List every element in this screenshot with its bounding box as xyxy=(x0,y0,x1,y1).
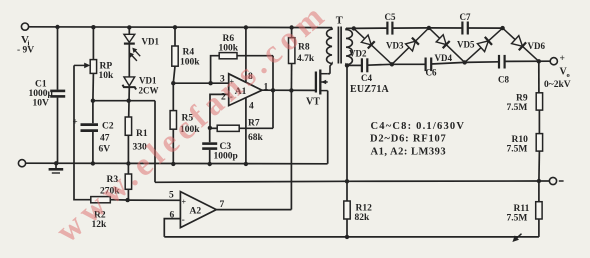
wire: A2 output to wired-OR column xyxy=(216,209,291,211)
diode VD4 xyxy=(429,28,465,63)
capacitor C2 47u/6V electrolytic xyxy=(92,101,94,124)
svg-text:C7: C7 xyxy=(460,12,471,22)
svg-text:7.5M: 7.5M xyxy=(507,214,528,224)
node: R4 top on supply rail xyxy=(173,25,177,29)
ground symbol xyxy=(55,163,57,168)
svg-text:C1: C1 xyxy=(35,80,47,90)
capacitor C7 xyxy=(461,22,463,35)
svg-text:-: - xyxy=(182,215,185,225)
svg-text:7: 7 xyxy=(220,200,225,210)
svg-text:C2: C2 xyxy=(102,122,114,132)
wire: RP wiper down-left column to R2 xyxy=(74,65,91,199)
resistor R3 270k xyxy=(127,164,129,175)
svg-text:6: 6 xyxy=(170,211,175,221)
VT source column to ground rail xyxy=(327,91,329,164)
ground rail (0V) xyxy=(22,162,328,165)
svg-text:VD4: VD4 xyxy=(435,53,453,63)
resistor R6 100k feedback xyxy=(211,56,220,83)
node: R8 top on supply rail xyxy=(289,25,293,29)
svg-text:2CW: 2CW xyxy=(139,86,159,96)
capacitor C1 1000u/10V xyxy=(57,27,59,90)
svg-text:R10: R10 xyxy=(512,135,529,145)
op-amp A1 LM393 xyxy=(229,74,262,106)
node: R8/comparator-output junction xyxy=(289,88,293,92)
node: secondary bottom corner xyxy=(345,63,349,67)
wire: top -9V supply rail xyxy=(25,26,332,29)
svg-text:VD3: VD3 xyxy=(386,41,404,51)
svg-text:C6: C6 xyxy=(426,68,437,78)
node: R10/R11 tap junction xyxy=(537,179,541,183)
resistor R10 7.5M xyxy=(536,134,542,152)
diode VD6 xyxy=(503,28,539,61)
node: VD1 top on supply rail xyxy=(127,25,131,29)
wire: multiplier top rail xyxy=(354,27,388,29)
LED VD1 arrows xyxy=(134,50,140,56)
resistor R7 68k xyxy=(217,125,239,131)
resistor R1 330 xyxy=(125,117,131,135)
svg-text:VD1: VD1 xyxy=(142,36,160,46)
node: R2/R3/A2 pin5 junction xyxy=(125,198,129,202)
node: multiplier bottom node 2 xyxy=(463,60,467,64)
svg-text:4: 4 xyxy=(249,102,254,112)
svg-text:100k: 100k xyxy=(180,58,200,68)
capacitor C3 1000p xyxy=(209,128,211,142)
node: secondary top junction xyxy=(352,26,356,30)
svg-text:+: + xyxy=(560,54,565,64)
svg-text:VD2: VD2 xyxy=(349,49,367,59)
terminal Vi -9V input xyxy=(21,23,28,30)
node: feedback column on output xyxy=(271,88,275,92)
node: R1/R3 on ground rail xyxy=(126,161,130,165)
node: C2 bottom on ground rail xyxy=(91,161,95,165)
svg-text:VT: VT xyxy=(306,97,320,108)
wire: A2 pin6 lead xyxy=(164,219,180,237)
svg-text:A1, A2: LM393: A1, A2: LM393 xyxy=(371,146,447,157)
svg-text:R1: R1 xyxy=(136,129,148,139)
svg-text:6V: 6V xyxy=(99,145,111,155)
svg-text:R11: R11 xyxy=(514,204,530,214)
svg-text:R6: R6 xyxy=(223,34,235,44)
transformer T secondary winding xyxy=(346,28,352,65)
LED VD1 (photodiode-style arrows) xyxy=(128,27,130,34)
wire: A1 output row to VT gate xyxy=(262,89,316,91)
wire: HV divider column R9 R10 R11 xyxy=(538,61,540,93)
capacitor C5 xyxy=(386,22,388,35)
wire: A2 pin6 feedback bottom rail xyxy=(164,236,539,238)
wire: A1 pin4 column to ground rail xyxy=(245,98,247,164)
node: A1 pin4 on ground rail xyxy=(244,162,248,166)
svg-text:100k: 100k xyxy=(219,44,239,54)
svg-text:7.5M: 7.5M xyxy=(507,103,528,113)
svg-text:R7: R7 xyxy=(248,119,260,129)
svg-text:C5: C5 xyxy=(385,12,396,22)
resistor R4 100k xyxy=(174,27,176,46)
node: R4/R5 divider junction xyxy=(171,81,175,85)
capacitor C4 xyxy=(361,58,363,72)
node: R12 bottom junction xyxy=(345,235,349,239)
node: multiplier peak 1 xyxy=(427,26,431,30)
svg-text:10V: 10V xyxy=(33,99,50,109)
resistor R8 4.7k xyxy=(291,28,293,38)
wire: R6/R7 right column to A1 output xyxy=(272,56,274,129)
resistor R2 12k xyxy=(91,197,111,203)
wire: reference node row (RP/C2/zener/R1) xyxy=(93,100,155,102)
capacitor C6 xyxy=(425,58,427,72)
wire: secondary-bottom column down to R12 xyxy=(346,65,348,201)
svg-text:C4: C4 xyxy=(361,73,372,83)
svg-text:0~2kV: 0~2kV xyxy=(544,80,571,90)
node: multiplier bottom node 1 xyxy=(390,62,394,66)
svg-text:T: T xyxy=(336,16,343,27)
svg-text:A2: A2 xyxy=(190,207,202,217)
resistor R9 7.5M xyxy=(536,93,542,110)
svg-text:R9: R9 xyxy=(516,94,528,104)
svg-text:R4: R4 xyxy=(183,48,195,58)
terminal feedback tap xyxy=(549,177,556,184)
wire: A2 pin5 lead xyxy=(128,199,181,201)
resistor R12 82k xyxy=(344,201,350,219)
svg-text:+: + xyxy=(182,198,187,207)
node: C3 bottom on ground rail xyxy=(208,162,212,166)
node: pin2/R7/C3 junction xyxy=(208,126,212,130)
svg-text:5: 5 xyxy=(169,191,174,201)
potentiometer RP 10k xyxy=(92,27,94,59)
diode VD3 xyxy=(392,28,429,64)
capacitor C8 xyxy=(498,55,500,69)
node: R6 left on pin3 row xyxy=(208,81,212,85)
diode VD5 xyxy=(465,28,503,62)
wire: reference column down to feedback row xyxy=(154,101,156,183)
RP wiper arrow xyxy=(74,64,87,66)
svg-text:C4~C8: 0.1/630V: C4~C8: 0.1/630V xyxy=(371,121,466,132)
zener diode VD1 2CW xyxy=(124,77,135,86)
svg-text:7.5M: 7.5M xyxy=(507,145,528,155)
transformer T primary winding xyxy=(327,28,332,74)
svg-text:47: 47 xyxy=(100,134,110,144)
svg-text:C3: C3 xyxy=(220,142,232,152)
node: R5 bottom on ground rail xyxy=(171,162,175,166)
node: RP-C2 junction xyxy=(91,99,95,103)
node: C1/ground junction xyxy=(54,161,58,165)
svg-text:C8: C8 xyxy=(498,75,509,85)
wire: secondary top to ladder xyxy=(346,27,354,29)
svg-text:EUZ71A: EUZ71A xyxy=(350,84,390,95)
node: C1 top on supply rail xyxy=(55,25,59,29)
node: multiplier output node xyxy=(537,59,541,63)
node: zener-R1 junction xyxy=(127,99,131,103)
svg-text:4.7k: 4.7k xyxy=(297,54,315,64)
diode VD2 xyxy=(354,28,392,64)
node: R12 top junction xyxy=(345,179,349,183)
wire: A1 pin3 row xyxy=(173,82,229,84)
svg-text:1000p: 1000p xyxy=(214,152,238,162)
wire: A1 pin2 lead xyxy=(210,94,229,127)
svg-text:RP: RP xyxy=(100,62,113,72)
resistor R5 100k xyxy=(172,83,174,110)
svg-text:82k: 82k xyxy=(355,213,371,223)
svg-text:VD1: VD1 xyxy=(139,76,157,86)
svg-text:R12: R12 xyxy=(356,204,373,214)
svg-text:10k: 10k xyxy=(99,71,115,81)
wire: wired-OR column A1 out to A2 out xyxy=(290,90,292,209)
svg-text:- 9V: - 9V xyxy=(17,46,34,56)
svg-text:VD6: VD6 xyxy=(528,41,546,51)
svg-text:D2~D6: RF107: D2~D6: RF107 xyxy=(370,134,447,145)
arrow mark on bottom rail xyxy=(515,234,522,240)
svg-text:+: + xyxy=(73,117,78,127)
node: RP top on supply rail xyxy=(91,25,95,29)
svg-text:o: o xyxy=(567,72,570,79)
transformer T core xyxy=(337,27,339,64)
terminal 0V bottom-left xyxy=(18,160,25,167)
MOSFET VT xyxy=(315,72,317,93)
svg-text:68k: 68k xyxy=(248,133,264,143)
resistor R11 7.5M xyxy=(538,181,540,202)
wire: feedback row to R10/R11 tap xyxy=(155,181,539,182)
terminal Vo output 0~2kV xyxy=(550,58,557,65)
node: multiplier peak 2 xyxy=(500,26,504,30)
svg-text:VD5: VD5 xyxy=(457,40,475,50)
wire: A1 pin8 power column from rail xyxy=(244,25,248,29)
wire: secondary bottom / multiplier bottom rail xyxy=(347,64,362,66)
svg-text:1000μ: 1000μ xyxy=(29,89,54,99)
VT drain lead xyxy=(328,73,330,75)
